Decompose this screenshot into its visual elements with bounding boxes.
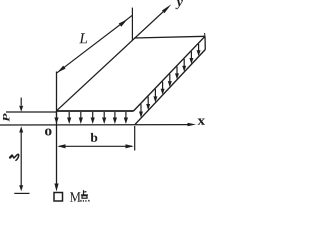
x-axis arrowhead xyxy=(188,123,197,127)
label y xyxy=(175,0,182,9)
wire: top surface line (P-dim extension + slab top front edge) xyxy=(6,111,57,113)
front arrowheads xyxy=(54,118,128,125)
tick above back-right corner xyxy=(204,33,206,36)
y-axis arrowhead xyxy=(162,4,171,13)
distributed load arrows on front face xyxy=(57,112,126,118)
wire: ground surface line and x-axis shaft xyxy=(0,124,189,126)
side arrowheads xyxy=(139,50,201,118)
label o xyxy=(45,128,52,135)
b right extension line xyxy=(134,126,136,151)
label P (rotated) xyxy=(3,113,9,121)
slab top-face right edge xyxy=(134,36,206,111)
distributed load arrows on side face xyxy=(141,44,199,112)
b left arrowhead xyxy=(57,144,65,148)
L lower arrowhead xyxy=(57,66,65,73)
slab side-face bottom edge xyxy=(135,50,206,125)
glyph 点 drawn as paths xyxy=(81,190,90,202)
label x xyxy=(197,119,204,125)
label M xyxy=(70,192,81,201)
z-line arrowhead at M point xyxy=(54,184,58,192)
l lower arrowhead (down) xyxy=(19,185,23,191)
node o: z-axis vertical line through origin xyxy=(56,72,58,185)
L upper extension line xyxy=(131,8,133,41)
dimension b line xyxy=(59,145,132,147)
l bottom tick xyxy=(14,192,29,194)
y-axis shaft xyxy=(57,8,168,111)
dimension l (ell) line xyxy=(20,132,22,187)
b right arrowhead xyxy=(126,144,134,148)
slab back-right thickness edge xyxy=(204,36,206,49)
L upper arrowhead xyxy=(119,19,128,26)
P arrowhead down xyxy=(19,106,23,112)
dimension L line xyxy=(57,15,132,73)
label l ell (rotated) xyxy=(10,154,19,160)
slab back edge xyxy=(134,36,205,38)
dimension P upper arrow shaft xyxy=(20,98,22,106)
M point square marker xyxy=(54,193,63,202)
label L xyxy=(79,33,87,43)
label b xyxy=(91,133,98,142)
l upper arrowhead (up) xyxy=(19,126,23,132)
